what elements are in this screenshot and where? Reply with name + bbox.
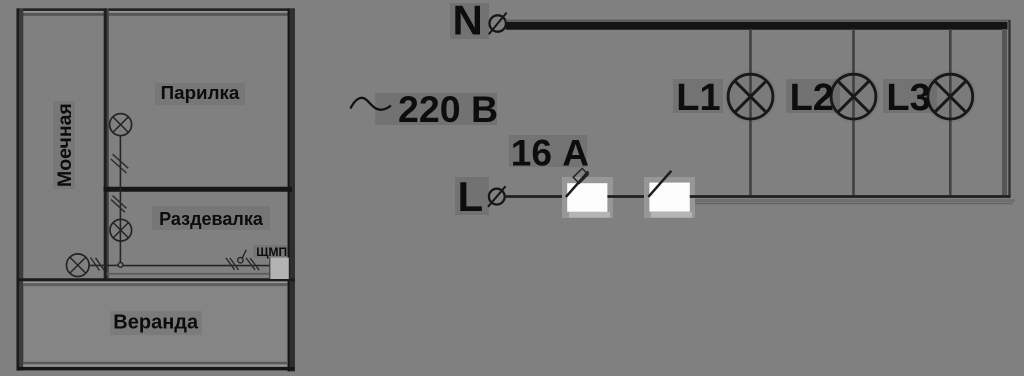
wall: between Moechnaya and Parilka (thick) [105, 8, 108, 279]
wire: L to breaker [505, 195, 567, 198]
terminal L [488, 186, 506, 207]
wall: plan outer left (thick) [18, 8, 21, 370]
wire: drop to lamp L2 [852, 29, 855, 195]
svg-text:16 А: 16 А [511, 132, 589, 173]
wire: N bus (thick) [506, 20, 1010, 25]
artifact shading behind labels [53, 83, 289, 335]
lamp L3 [928, 74, 973, 119]
lamp L1 [728, 74, 773, 119]
wall: plan outer top (double line) [17, 10, 296, 15]
wire hatch marks (Razdevalka) [111, 196, 127, 213]
lamp HL2 (Razdevalka) [110, 219, 132, 241]
wire hatch marks (near HL3) [91, 258, 105, 271]
wire: right return vertical [1005, 20, 1010, 196]
wire hatch marks (left of switch S1) [226, 258, 239, 270]
svg-text:L: L [458, 173, 484, 220]
wire: drop to lamp L1 [749, 29, 752, 195]
label ~ (AC) [351, 98, 392, 110]
svg-text:220 В: 220 В [398, 88, 498, 130]
wire: junction to panel [123, 265, 271, 267]
switch S1 (plan symbol) [238, 250, 247, 263]
svg-text:L2: L2 [790, 77, 834, 119]
wire: breaker to switch [607, 195, 648, 198]
wall: between Parilka and Razdevalka [104, 187, 293, 192]
switch SA1 [644, 171, 695, 218]
veranda interior (slightly lighter) [24, 287, 286, 362]
lamp HL1 (Parilka) [110, 114, 132, 136]
wire: vertical lamp feed in Parilka/Razdevalka [119, 136, 121, 263]
lamp HL3 (Moechnaya) [67, 254, 90, 277]
panel box ShchMP [270, 258, 289, 280]
svg-text:L1: L1 [676, 77, 720, 119]
svg-text:N: N [453, 0, 483, 44]
wall: above Veranda (double line) [17, 274, 296, 285]
wall: Veranda bottom (double line) [17, 363, 295, 369]
wire hatch marks (Parilka) [111, 154, 128, 173]
wire: L line to the right [690, 197, 1015, 204]
breaker QF1 16A [562, 168, 613, 218]
junction node [118, 263, 123, 268]
wire: HL3 to junction [89, 264, 118, 266]
wire: drop to lamp L3 [949, 29, 952, 195]
lamp L2 [831, 74, 876, 119]
terminal N [489, 13, 507, 35]
svg-text:L3: L3 [886, 77, 930, 119]
wall: plan outer right (thick) [288, 8, 295, 371]
wire hatch marks (right of switch S1) [246, 258, 259, 270]
